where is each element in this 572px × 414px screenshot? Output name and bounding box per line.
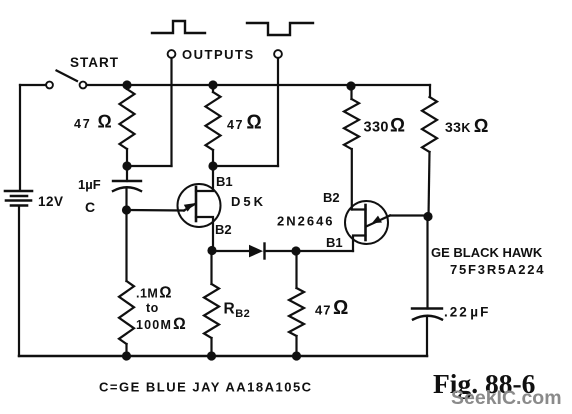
svg-text:to: to <box>146 301 159 315</box>
wire output left vertical <box>170 58 172 166</box>
svg-text:START: START <box>70 55 119 70</box>
capacitor C1 1uF <box>113 166 141 210</box>
wire left rail vertical <box>19 85 21 190</box>
svg-text:100MΩ: 100MΩ <box>136 315 186 333</box>
svg-text:B1: B1 <box>216 174 233 189</box>
transistor Q1 D5K UJT <box>127 166 221 251</box>
svg-text:.1MΩ: .1MΩ <box>136 285 172 302</box>
output terminal left <box>168 50 176 58</box>
wire diode anode <box>212 250 249 252</box>
svg-text:2N2646: 2N2646 <box>277 214 335 229</box>
svg-text:OUTPUTS: OUTPUTS <box>182 47 255 62</box>
svg-text:47Ω: 47Ω <box>315 297 348 319</box>
svg-text:B2: B2 <box>215 222 232 237</box>
node junction RB2-bottom <box>207 351 216 360</box>
svg-text:330Ω: 330Ω <box>364 115 405 137</box>
transistor Q2 2N2646 UJT <box>345 201 428 251</box>
node junction rail-R3 <box>346 81 355 90</box>
svg-text:GE BLACK HAWK: GE BLACK HAWK <box>431 245 543 260</box>
waveform negative pulse <box>247 23 313 35</box>
svg-text:C=GE BLUE JAY AA18A105C: C=GE BLUE JAY AA18A105C <box>99 380 313 395</box>
svg-text:D5K: D5K <box>231 194 266 209</box>
resistor R2 47ohm <box>206 85 221 166</box>
battery 12V <box>5 191 32 206</box>
wire main top rail <box>87 84 431 86</box>
waveform positive pulse <box>152 21 205 33</box>
svg-text:47Ω: 47Ω <box>74 111 112 132</box>
wire output right horizontal <box>213 165 278 167</box>
wire battery to bottom rail <box>18 207 20 357</box>
node junction C1-emitter <box>122 205 131 214</box>
node junction rail-R1 <box>122 80 131 89</box>
resistor R3 330ohm <box>344 86 359 210</box>
svg-text:SeekIC.com: SeekIC.com <box>451 387 562 409</box>
resistor R5 .1M-100M <box>119 210 134 356</box>
diode D1 <box>249 244 296 259</box>
node junction R7-bottom <box>292 351 301 360</box>
wire bottom rail <box>19 355 427 358</box>
svg-text:33KΩ: 33KΩ <box>445 116 488 137</box>
wire left rail top <box>20 84 46 86</box>
resistor R4 33Kohm <box>422 85 437 217</box>
resistor R1 47ohm <box>120 85 135 166</box>
svg-text:12V: 12V <box>38 194 64 209</box>
resistor RB2 <box>204 251 219 357</box>
output terminal right <box>274 50 282 58</box>
svg-text:47Ω: 47Ω <box>227 112 262 134</box>
node junction diode-R7 <box>291 246 300 255</box>
node junction R2-B1-output <box>208 161 217 170</box>
svg-text:C: C <box>85 199 95 215</box>
svg-text:.22µF: .22µF <box>444 305 490 320</box>
node junction emitter-R4 <box>423 212 432 221</box>
wire output right vertical <box>277 58 279 166</box>
svg-text:1µF: 1µF <box>78 177 101 192</box>
switch S1 START <box>46 71 86 89</box>
wire diode to Q2 B1 <box>296 250 353 252</box>
capacitor C2 .22uF <box>412 217 442 357</box>
svg-text:RB2: RB2 <box>224 301 251 321</box>
wire output left horizontal <box>127 165 172 167</box>
resistor R7 47ohm <box>289 251 304 356</box>
node junction B2-diode <box>207 246 216 255</box>
svg-text:B2: B2 <box>323 190 340 205</box>
svg-text:75F3R5A224: 75F3R5A224 <box>450 262 545 277</box>
svg-text:B1: B1 <box>326 235 343 250</box>
node junction rail-R2 <box>208 80 217 89</box>
node junction R1-C1-output <box>122 161 131 170</box>
node junction R5-bottom <box>122 351 131 360</box>
